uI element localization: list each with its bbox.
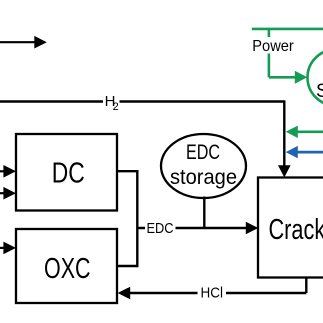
wire: vertical drop from H2 line into Cracker [278, 100, 291, 177]
wire: EDC bus vertical [136, 170, 138, 267]
wire: green arrow from right into H2 drop [286, 126, 323, 138]
svg-text:S: S [316, 81, 323, 102]
svg-text:HCl: HCl [201, 285, 224, 302]
wire: green power bus (top) [252, 28, 323, 31]
wire: HCl stub from Cracker bottom [305, 278, 307, 294]
wire: OXC outlet to EDC bus [117, 265, 137, 267]
node EDC label [145, 220, 176, 237]
wire: blue arrow from right into H2 drop [286, 146, 323, 158]
wire: HCl return arrow into OXC [118, 287, 307, 300]
svg-text:storage: storage [170, 166, 237, 189]
svg-text:EDC: EDC [186, 141, 220, 164]
wire: EDC feed arrow into Cracker [137, 222, 258, 235]
wire: arrow into OXC [0, 242, 16, 255]
wire: green arrow into S circle [269, 71, 307, 84]
node H2 label [103, 93, 120, 113]
svg-text:Cracker: Cracker [269, 214, 323, 246]
svg-text:OXC: OXC [44, 253, 91, 285]
box OXC [16, 229, 117, 303]
svg-text:EDC: EDC [147, 220, 174, 237]
wire: DC outlet to EDC bus [117, 170, 137, 172]
wire: top-left feed arrow [0, 36, 47, 49]
node Power label [251, 37, 296, 55]
unit S circle (cut off at right edge) [308, 50, 323, 106]
box Cracker [258, 178, 323, 278]
storage tank: EDC storage ellipse [161, 134, 246, 198]
node HCl label [198, 285, 227, 302]
wire: arrow into DC (upper) [0, 165, 16, 178]
wire: arrow into DC (lower) [0, 187, 16, 200]
svg-text:DC: DC [52, 158, 85, 190]
wire: storage stem to EDC line [203, 197, 205, 229]
svg-text:2: 2 [113, 101, 119, 113]
wire: green power drop [268, 29, 271, 77]
svg-text:Power: Power [252, 38, 294, 55]
box DC [16, 134, 117, 211]
wire: H2 line from left to elbow [0, 100, 284, 102]
